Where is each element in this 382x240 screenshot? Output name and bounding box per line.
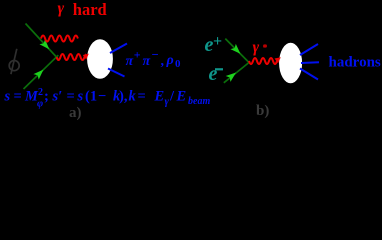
svg-text:2: 2 [38,87,43,98]
blob a (hadronic blob) [86,38,114,79]
blob b (hadronic blob) [278,42,303,84]
svg-text:E: E [176,89,187,105]
pion line upper (diagram a) [110,44,127,54]
svg-text:e: e [209,63,218,85]
svg-text:b): b) [256,103,269,119]
svg-text:π: π [126,54,134,69]
svg-text:ρ: ρ [166,53,174,68]
svg-text:−: − [98,89,106,105]
svg-text:s: s [77,89,84,105]
wire e+ incoming (diagram a) [26,24,59,60]
hadron line middle (diagram b) [301,61,319,64]
svg-text:=: = [67,89,75,105]
arrow on e+ line (diagram b) [230,44,243,57]
arrow on e+ line (diagram a) [39,39,52,52]
arrowhead of photon at blob (diagram a) [83,54,89,60]
svg-text:(1: (1 [85,89,97,105]
svg-text:k: k [129,89,137,105]
formula s = M_phi^2 ; s' = s(1-k), k = E_gamma/E_beam [4,87,211,110]
svg-text:s′: s′ [52,89,63,105]
svg-text:beam: beam [188,96,210,107]
pion line lower (diagram a) [108,69,125,77]
arrow on e- line (diagram a) [33,67,46,80]
wire e- incoming (diagram b) [224,63,249,83]
svg-text:=: = [138,89,146,105]
wire e- incoming (diagram a) [24,55,59,89]
svg-text:0: 0 [175,58,181,70]
svg-text:π: π [143,54,151,69]
label e+ (diagram b) [205,33,223,56]
svg-text:),: ), [119,89,128,105]
photon propagator (lower wavy, diagram a) [57,54,89,60]
svg-text:a): a) [69,105,82,120]
svg-text:hard: hard [73,0,107,19]
wire e+ incoming (diagram b) [225,39,249,63]
photon hard radiated (upper wavy, diagram a) [41,36,78,42]
svg-text:,: , [161,54,165,69]
svg-text:*: * [263,43,268,54]
label gamma-hard [58,0,107,19]
arrowhead of photon at blob (diagram b) [275,57,281,63]
svg-text:hadrons: hadrons [329,55,381,71]
svg-text:E: E [154,89,165,105]
svg-text:+: + [134,48,141,62]
hadron line lower (diagram b) [300,69,318,80]
svg-text:=: = [14,89,22,105]
svg-text:−: − [152,48,159,62]
svg-text:s: s [4,89,11,105]
arrow on e- line (diagram b) [226,69,239,81]
hadron line upper (diagram b) [300,44,318,55]
label gamma* (diagram b) [253,39,268,56]
svg-text:;: ; [44,89,49,105]
svg-text:φ: φ [37,99,43,110]
photon propagator wavy (diagram b) [249,58,277,64]
svg-text:γ: γ [253,39,260,56]
svg-text:γ: γ [165,97,170,108]
label e- (diagram b) [209,63,224,85]
svg-text:γ: γ [58,0,65,17]
label pi+pi-, rho0 [126,48,182,71]
svg-text:+: + [213,33,222,50]
label phi [9,49,19,74]
